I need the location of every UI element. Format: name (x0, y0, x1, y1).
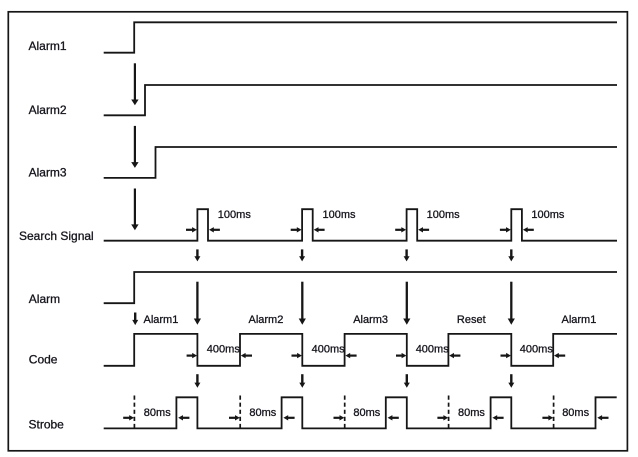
sync arrow Code to Strobe 1 (194, 374, 200, 388)
trigger arrow 4 Alarm to Code (508, 282, 515, 325)
svg-text:100ms: 100ms (323, 209, 357, 221)
dimension arrow at dashed line 1 (123, 415, 134, 420)
dimension arrow at Strobe rising edge 3 (388, 415, 399, 420)
sync arrow Code to Strobe 2 (299, 374, 305, 388)
svg-text:400ms: 400ms (207, 343, 241, 355)
waveform Alarm3 (step up) (104, 147, 617, 178)
svg-text:Reset: Reset (457, 314, 486, 326)
dimension arrow at Strobe rising edge 4 (492, 415, 503, 420)
dimension arrow right of search pulse 1 (209, 227, 220, 232)
svg-text:80ms: 80ms (562, 407, 589, 419)
svg-text:400ms: 400ms (312, 343, 346, 355)
svg-text:Alarm2: Alarm2 (249, 314, 284, 326)
sync arrow Code to Strobe 4 (508, 374, 514, 388)
svg-text:100ms: 100ms (218, 209, 252, 221)
dashed reference line 2 on Strobe (239, 396, 241, 431)
dimension arrow at Strobe rising edge 1 (178, 415, 189, 420)
svg-text:Alarm2: Alarm2 (29, 103, 67, 117)
cascade arrow Alarm3 to Search Signal (131, 189, 138, 231)
waveform Alarm2 (step up) (104, 85, 617, 115)
dimension arrow at dashed line 3 (334, 415, 345, 420)
dashed reference line 4 on Strobe (448, 396, 450, 431)
svg-text:80ms: 80ms (249, 407, 276, 419)
dashed reference line 1 on Strobe (133, 396, 135, 431)
dimension arrow right of search pulse 3 (418, 227, 429, 232)
waveform Alarm (step up) (104, 272, 617, 303)
dashed reference line 3 on Strobe (344, 396, 346, 431)
dimension arrow at dashed line 2 (229, 415, 240, 420)
dimension arrow at Code falling edge 2 (292, 353, 302, 358)
waveform Alarm1 (step up) (104, 22, 617, 52)
dimension arrow at Code rising edge 3 (345, 353, 356, 358)
dimension arrow at Code falling edge 4 (501, 353, 511, 358)
dimension arrow at Code rising edge 4 (449, 353, 460, 358)
trigger arrow 1 Alarm to Code (194, 282, 201, 325)
sync arrow search pulse 4 to Alarm (508, 249, 514, 261)
svg-text:Strobe: Strobe (29, 418, 65, 432)
dimension arrow at Code rising edge 2 (241, 353, 252, 358)
dimension arrow right of search pulse 2 (314, 227, 325, 232)
svg-text:80ms: 80ms (458, 407, 485, 419)
svg-text:Alarm1: Alarm1 (562, 314, 597, 326)
dimension arrow at dashed line 5 (542, 415, 553, 420)
dimension arrow at dashed line 4 (437, 415, 448, 420)
dimension arrow left of search pulse 4 (500, 227, 511, 232)
svg-text:Alarm1: Alarm1 (29, 39, 67, 53)
trigger arrow 2 Alarm to Code (299, 282, 306, 325)
dimension arrow left of search pulse 3 (395, 227, 406, 232)
dimension arrow at Strobe rising edge 5 (597, 415, 608, 420)
dashed reference line 5 on Strobe (553, 396, 555, 431)
sync arrow Code to Strobe 3 (404, 374, 410, 388)
cascade arrow Alarm2 to Alarm3 (131, 126, 138, 168)
trigger arrow 3 Alarm to Code (403, 282, 410, 325)
dimension arrow right of search pulse 4 (523, 227, 534, 232)
sync arrow search pulse 2 to Alarm (299, 249, 305, 261)
dimension arrow at Strobe rising edge 2 (283, 415, 294, 420)
svg-text:400ms: 400ms (520, 343, 554, 355)
cascade arrow Alarm1 to Alarm2 (131, 63, 138, 105)
dimension arrow at Code rising edge 5 (554, 353, 565, 358)
svg-text:Code: Code (29, 353, 58, 367)
dimension arrow left of search pulse 2 (291, 227, 302, 232)
svg-text:100ms: 100ms (531, 209, 565, 221)
dimension arrow left of search pulse 1 (186, 227, 197, 232)
svg-text:400ms: 400ms (416, 343, 450, 355)
svg-text:80ms: 80ms (353, 407, 380, 419)
waveform Strobe (80ms pulses) (104, 397, 617, 428)
dimension arrow at Code falling edge 1 (187, 353, 197, 358)
sync arrow search pulse 1 to Alarm (194, 249, 200, 261)
svg-text:Alarm3: Alarm3 (353, 314, 388, 326)
svg-text:80ms: 80ms (144, 407, 171, 419)
svg-text:100ms: 100ms (427, 209, 461, 221)
svg-text:Alarm3: Alarm3 (29, 165, 67, 179)
svg-text:Search Signal: Search Signal (19, 229, 94, 243)
small arrow before Code label Alarm1 (132, 313, 138, 326)
svg-text:Alarm: Alarm (29, 292, 60, 306)
dimension arrow at Code falling edge 3 (396, 353, 406, 358)
sync arrow search pulse 3 to Alarm (404, 249, 410, 261)
svg-text:Alarm1: Alarm1 (144, 314, 179, 326)
waveform Search Signal (100ms pulses) (104, 209, 617, 241)
waveform Code (coded pulses) (104, 334, 617, 366)
